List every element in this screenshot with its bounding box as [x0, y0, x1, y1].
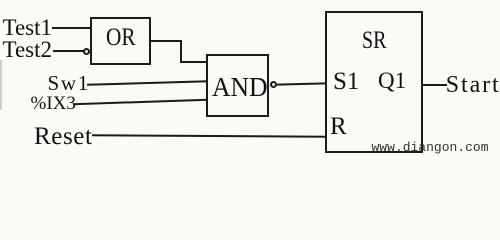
- and-gate block AND: [206, 54, 269, 117]
- wire AND output to S1: [277, 82, 326, 85]
- node Start label: [446, 73, 500, 97]
- or-gate block OR: [90, 17, 151, 65]
- wire %IX3 to AND input 3: [73, 98, 208, 105]
- wire OR output vertical segment: [180, 40, 182, 63]
- node Reset label: [34, 124, 93, 149]
- pin Q1: [378, 69, 406, 92]
- scan edge artifact: [0, 60, 2, 110]
- node Test2 label: [3, 38, 53, 61]
- sr-latch block SR: [325, 11, 423, 153]
- wire Test1 to OR input 1: [52, 27, 91, 29]
- pin S1: [333, 69, 359, 94]
- negation bubble at OR input 2: [83, 48, 90, 55]
- wire OR output horizontal segment: [149, 40, 182, 42]
- wire Q1 output to Start: [423, 84, 447, 86]
- watermark www.diangon.com: [372, 141, 489, 154]
- wire Sw1 to AND input 2: [87, 80, 208, 86]
- wire Test2 to OR input 2 (negated): [53, 50, 84, 52]
- node Sw1 label: [48, 73, 90, 94]
- negation bubble at AND output: [270, 81, 277, 88]
- label OR: [106, 25, 136, 50]
- wire OR output to AND input 1: [180, 61, 207, 63]
- node Test1 label: [3, 16, 53, 39]
- label SR: [362, 28, 386, 53]
- wire Reset to R input: [92, 134, 326, 137]
- pin R: [330, 114, 347, 139]
- label AND: [212, 74, 268, 101]
- node %IX3 label: [31, 94, 76, 113]
